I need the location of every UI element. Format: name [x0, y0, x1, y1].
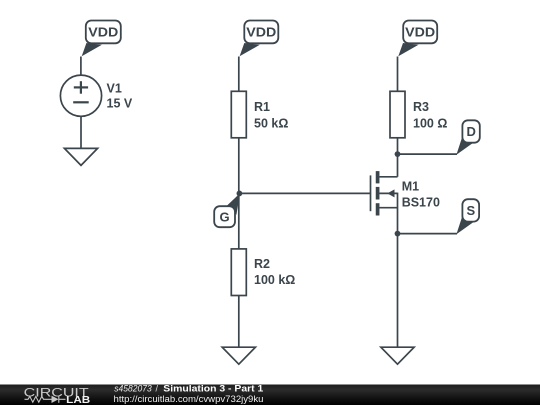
resistor R2: [231, 249, 246, 296]
svg-text:VDD: VDD: [246, 25, 276, 40]
net flag D: [456, 120, 479, 154]
wire M1 bulk/source down to node S: [397, 193, 399, 234]
svg-text:M1: M1: [402, 179, 419, 193]
svg-text:BS170: BS170: [402, 195, 440, 209]
voltage source V1: [60, 75, 101, 116]
wire VDD to R1 top: [238, 57, 240, 92]
wire R3 bottom to MOSFET drain through node D: [397, 138, 399, 177]
M1 bulk lead with arrow: [379, 189, 397, 197]
net flag VDD (middle): [240, 21, 279, 57]
label M1 BS170: [402, 179, 440, 209]
net flag G: [214, 193, 240, 227]
node S junction dot: [395, 231, 401, 237]
net flag S: [456, 199, 479, 234]
svg-text:15 V: 15 V: [107, 97, 133, 111]
svg-text:VDD: VDD: [88, 25, 118, 40]
label R2 100 kOhm: [254, 257, 295, 287]
svg-text:G: G: [220, 210, 230, 225]
M1 drain lead: [379, 176, 397, 178]
wire V1 bottom to ground: [80, 116, 82, 148]
svg-text:V1: V1: [107, 82, 122, 96]
svg-text:100 Ω: 100 Ω: [413, 117, 447, 131]
svg-text:s4582073: s4582073: [114, 384, 151, 394]
wire node S to ground: [397, 234, 399, 348]
node D junction dot: [395, 151, 401, 157]
ground (right): [381, 347, 414, 364]
wire node S to flag S: [398, 233, 458, 235]
label R3 100 Ohm: [413, 100, 447, 131]
net flag VDD (right): [398, 21, 437, 57]
resistor R1: [231, 91, 246, 138]
transistor M1 gate line: [370, 175, 372, 211]
resistor R3: [390, 91, 405, 138]
wire node G to MOSFET gate: [239, 192, 370, 194]
wire VDD to V1 top: [80, 57, 82, 76]
label V1 15 V: [107, 82, 133, 111]
svg-text:LAB: LAB: [66, 395, 90, 405]
svg-text:VDD: VDD: [405, 25, 435, 40]
svg-text:S: S: [466, 203, 475, 218]
svg-text:Simulation 3 - Part 1: Simulation 3 - Part 1: [163, 384, 263, 394]
M1 source lead: [379, 207, 397, 209]
svg-text:R1: R1: [254, 100, 270, 114]
wire R2 bottom to ground: [238, 296, 240, 348]
svg-text:50 kΩ: 50 kΩ: [254, 117, 288, 131]
CircuitLab logo diode triangle: [52, 396, 59, 403]
CircuitLab logo resistor-diode squiggle: [25, 396, 66, 403]
svg-text:100 kΩ: 100 kΩ: [254, 273, 295, 287]
wire node D to flag D: [398, 153, 458, 155]
svg-text:R2: R2: [254, 257, 270, 271]
wire R1 bottom to R2 top through node G: [238, 138, 240, 249]
label R1 50 kOhm: [254, 100, 288, 131]
transistor M1 channel middle bar (bulk): [376, 187, 380, 200]
ground (middle): [222, 347, 255, 364]
wire VDD to R3 top: [397, 57, 399, 92]
ground (left): [64, 148, 97, 165]
svg-text:http://circuitlab.com/cvwpv732: http://circuitlab.com/cvwpv732jy9ku: [114, 394, 264, 404]
net flag VDD (left): [82, 21, 121, 57]
node G junction dot: [237, 191, 243, 197]
svg-text:D: D: [467, 124, 476, 139]
svg-text:R3: R3: [413, 100, 429, 114]
transistor M1 channel bottom bar (source): [376, 203, 380, 215]
transistor M1 channel top bar (drain): [376, 171, 380, 183]
